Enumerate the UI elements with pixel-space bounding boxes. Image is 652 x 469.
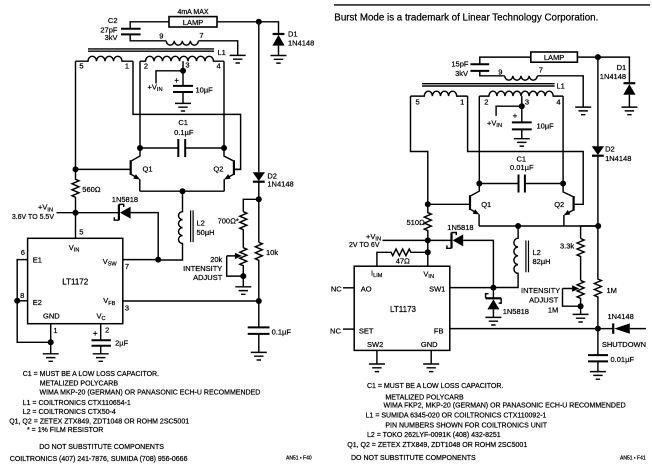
svg-text:LAMP: LAMP — [183, 18, 203, 27]
svg-text:0.1µF: 0.1µF — [174, 128, 194, 137]
svg-text:2µF: 2µF — [115, 339, 128, 348]
label 510ohm — [407, 218, 426, 227]
ground (20k pot) — [235, 287, 251, 295]
svg-text:Q2: Q2 — [554, 200, 564, 209]
label L2 (right) — [533, 248, 541, 257]
node lamp output — [256, 19, 262, 25]
capacitor 2uF — [92, 340, 111, 354]
node pot wiper — [240, 273, 246, 279]
svg-text:10µF: 10µF — [537, 122, 555, 131]
wire C2 to transformer pin 9 — [130, 34, 166, 40]
label 3kV — [455, 69, 468, 78]
svg-text:NC: NC — [330, 326, 341, 335]
svg-text:GND: GND — [421, 340, 438, 349]
wire SW1 to node — [450, 287, 494, 289]
label 0.01uF (right) — [611, 355, 635, 364]
label C1 (right) — [517, 154, 527, 163]
svg-text:L2: L2 — [197, 218, 205, 227]
svg-text:1N4148: 1N4148 — [605, 154, 631, 163]
wire emitter bus (right) — [479, 225, 598, 227]
label Q2 — [213, 165, 223, 174]
wire C to transformer pin 9 — [480, 71, 505, 76]
resistor 10k — [255, 242, 262, 301]
label INTENSITY — [183, 264, 222, 273]
wire emitter bus — [140, 190, 224, 192]
label 15pF — [451, 60, 469, 69]
svg-text:SW1: SW1 — [429, 284, 445, 293]
label pin 2 (right) — [484, 98, 488, 107]
svg-text:3kV: 3kV — [105, 33, 118, 42]
capacitor 15pF — [470, 64, 489, 71]
node feedback — [256, 298, 262, 304]
wire pin2 down to Q1 collector — [139, 61, 141, 148]
svg-text:700Ω*: 700Ω* — [218, 216, 239, 225]
svg-text:3: 3 — [185, 61, 189, 70]
label SHUTDOWN — [602, 340, 646, 349]
label pin 5 — [79, 61, 83, 70]
svg-text:5: 5 — [416, 98, 420, 107]
svg-text:PIN NUMBERS SHOWN FOR COILTRON: PIN NUMBERS SHOWN FOR COILTRONICS UNIT — [385, 422, 547, 429]
svg-text:METALIZED POLYCARB: METALIZED POLYCARB — [40, 380, 119, 387]
svg-text:82µH: 82µH — [533, 257, 551, 266]
capacitor C2 — [121, 29, 141, 35]
svg-text:Q1: Q1 — [481, 200, 491, 209]
resistor 47 ohm — [377, 240, 428, 266]
label 0.1uF — [174, 128, 194, 137]
pin number 1 — [53, 326, 57, 335]
wire VIN pin (right) — [427, 252, 429, 266]
wire lamp right to rail (right) — [577, 57, 629, 83]
label L1 (right) — [557, 82, 565, 91]
wire E2 pin 8 — [17, 300, 27, 302]
svg-text:1N4148: 1N4148 — [600, 72, 626, 81]
svg-text:D1: D1 — [288, 30, 298, 39]
transformer L1b winding 9-7 — [505, 76, 538, 80]
wire pin1 down and across to Q2 base — [133, 61, 241, 169]
svg-text:NC: NC — [331, 284, 342, 293]
svg-text:FB: FB — [434, 326, 444, 335]
wire VC pin 2 — [100, 324, 102, 341]
label plus — [174, 76, 179, 85]
node SW1 — [490, 285, 496, 291]
label 1N4148 (D2) — [267, 180, 293, 189]
transformer L1 winding 2-3-4 — [140, 56, 224, 61]
label D2 (right) — [605, 145, 615, 154]
svg-text:10µF: 10µF — [196, 85, 214, 94]
wire pin7 to ground — [198, 41, 237, 56]
resistor 3.3k — [577, 239, 584, 281]
svg-text:1M: 1M — [548, 305, 558, 314]
svg-text:E1: E1 — [33, 255, 42, 264]
label +VIN — [148, 83, 163, 94]
label NC (SET) — [330, 326, 341, 335]
diode 1N5818 (second, vertical) — [486, 288, 502, 318]
wire FB — [450, 328, 598, 330]
svg-text:10k: 10k — [266, 248, 278, 257]
node VSW — [155, 257, 161, 263]
svg-text:C1 = MUST BE A LOW LOSS CAPACI: C1 = MUST BE A LOW LOSS CAPACITOR. — [23, 371, 159, 378]
label D1 — [288, 30, 298, 39]
svg-text:INTENSITY: INTENSITY — [183, 264, 222, 273]
ground (D1) — [271, 56, 287, 64]
svg-text:Q1, Q2 = ZETEX ZTX849, ZDT1048: Q1, Q2 = ZETEX ZTX849, ZDT1048 OR ROHM 2… — [9, 419, 189, 426]
node E2 — [14, 298, 20, 304]
wire NC to SET — [343, 328, 354, 330]
label 1N5818 (second) — [503, 307, 529, 316]
ground (SW2) — [369, 364, 385, 372]
svg-text:WIMA FKP2, MKP-20 (GERMAN) OR: WIMA FKP2, MKP-20 (GERMAN) OR PANASONIC … — [384, 403, 626, 410]
svg-text:5: 5 — [79, 228, 83, 237]
label 9 (right) — [498, 68, 502, 77]
transistor Q1 — [76, 148, 141, 191]
inductor L2b 82uH — [493, 226, 528, 288]
label 0.01uF (right) — [510, 163, 534, 172]
svg-text:L2 = COILTRONICS CTX50-4: L2 = COILTRONICS CTX50-4 — [23, 409, 116, 416]
svg-text:C2: C2 — [108, 16, 118, 25]
svg-text:L1: L1 — [218, 48, 226, 57]
svg-text:3.3k: 3.3k — [560, 242, 574, 251]
pin number 2 — [105, 326, 109, 335]
ground (U2 GND) — [423, 364, 439, 372]
lamp BL2 — [531, 52, 578, 62]
node Q1 collector (right) — [476, 181, 482, 187]
label pin 5 (right) — [416, 98, 420, 107]
svg-text:C1 = MUST BE A LOW LOSS CAPAC: C1 = MUST BE A LOW LOSS CAPACITOR. — [367, 383, 503, 390]
svg-text:7: 7 — [125, 262, 129, 271]
diode D1 1N4148 — [272, 34, 284, 56]
svg-text:1N4148: 1N4148 — [288, 38, 314, 47]
label 9 — [159, 32, 163, 41]
label NC (AO) — [331, 284, 342, 293]
label 1N4148 (D1) — [288, 38, 314, 47]
wire main right rail upper — [258, 22, 260, 172]
node Q2 collector — [221, 145, 227, 151]
wire +VIN rail — [57, 212, 119, 214]
svg-text:1N4148: 1N4148 — [608, 312, 634, 321]
svg-text:DO NOT SUBSTITUTE COMPONENTS: DO NOT SUBSTITUTE COMPONENTS — [351, 455, 476, 462]
transformer L1b winding 5-1 — [411, 91, 468, 96]
capacitor C1 — [140, 139, 224, 157]
op-amp U1 LT1172 box — [28, 238, 123, 323]
label trademark note — [334, 12, 598, 23]
svg-text:L2: L2 — [533, 248, 541, 257]
label Q1 (right) — [481, 200, 491, 209]
label 3.3k — [560, 242, 574, 251]
label 1M (pot) — [548, 305, 558, 314]
svg-text:Q1, Q2 = ZETEX ZTX849, ZDT104: Q1, Q2 = ZETEX ZTX849, ZDT1048 OR ROHM 2… — [347, 442, 527, 449]
transistor Q2 — [224, 148, 241, 191]
svg-text:50µH: 50µH — [197, 228, 215, 237]
wire VFB to feedback node — [123, 300, 259, 302]
svg-text:LAMP: LAMP — [544, 53, 564, 62]
pin number 5 — [79, 228, 83, 237]
ground (1N5818 second) — [485, 317, 501, 325]
wire E1 pin 6 — [17, 260, 51, 343]
wire branch to 700ohm — [243, 199, 258, 211]
svg-text:Q2: Q2 — [213, 165, 223, 174]
wire center tap pin3 — [182, 61, 184, 71]
svg-text:D2: D2 — [605, 145, 615, 154]
wire pin4 down (right) — [562, 96, 564, 183]
label +VIN (right top) — [487, 118, 502, 129]
svg-text:6: 6 — [21, 248, 25, 257]
svg-text:* = 1% FILM RESISTOR: * = 1% FILM RESISTOR — [27, 427, 103, 434]
label pin 1 (right) — [460, 98, 464, 107]
resistor 1M (right rail) — [594, 226, 601, 329]
svg-text:2: 2 — [484, 98, 488, 107]
ground (10uF right) — [514, 139, 530, 146]
svg-text:AN51 • F40: AN51 • F40 — [286, 456, 312, 462]
svg-text:1: 1 — [53, 326, 57, 335]
label 0.1uF — [272, 327, 292, 336]
svg-text:COILTRONICS (407) 241-7876, SU: COILTRONICS (407) 241-7876, SUMIDA (708)… — [10, 456, 188, 463]
label INTENSITY (right) — [521, 286, 560, 295]
diode D2b 1N4148 — [592, 146, 604, 226]
svg-text:LT1172: LT1172 — [62, 278, 88, 287]
svg-text:8: 8 — [20, 291, 24, 300]
svg-text:3: 3 — [525, 98, 529, 107]
label 1N4148 (D1 right) — [600, 72, 626, 81]
transformer L1b winding 2-3-4 — [479, 91, 563, 96]
transformer L1 core — [88, 49, 214, 51]
svg-text:3.6V TO 5.5V: 3.6V TO 5.5V — [12, 214, 54, 221]
capacitor 10uF — [173, 71, 193, 104]
node emitter bus / L2 tap — [180, 188, 186, 194]
label L2 — [197, 218, 205, 227]
svg-text:+: + — [174, 76, 179, 85]
svg-text:METALIZED POLYCARB: METALIZED POLYCARB — [385, 395, 464, 402]
node GND — [48, 339, 54, 345]
svg-text:510Ω: 510Ω — [407, 218, 426, 227]
wire pin4 down to Q2 collector — [223, 61, 225, 148]
wire pin7 to ground (right) — [537, 76, 583, 107]
label 82uH — [533, 257, 551, 266]
svg-text:4: 4 — [556, 98, 560, 107]
wire pin5 down to Q1 base node — [75, 61, 77, 169]
label ADJUST — [193, 273, 223, 282]
node L2 tap (right) — [515, 223, 521, 229]
transistor Q1 (right) — [428, 184, 480, 227]
node emitter bus to rail (right) — [595, 223, 601, 229]
inductor L2 — [158, 191, 193, 260]
label 10k — [266, 248, 278, 257]
svg-text:LT1173: LT1173 — [390, 305, 416, 314]
label 700ohm* — [218, 216, 239, 225]
svg-text:D1: D1 — [617, 63, 627, 72]
capacitor 0.01uF (right) — [588, 329, 608, 372]
svg-text:INTENSITY: INTENSITY — [521, 286, 560, 295]
label 10uF — [196, 85, 214, 94]
svg-text:SHUTDOWN: SHUTDOWN — [602, 340, 646, 349]
svg-text:SET: SET — [359, 326, 374, 335]
svg-text:GND: GND — [43, 311, 60, 320]
ground (10uF) — [175, 103, 191, 111]
svg-text:+: + — [93, 329, 98, 338]
svg-text:AO: AO — [361, 284, 372, 293]
transistor Q2 (right) — [563, 184, 574, 227]
svg-text:1N5818: 1N5818 — [112, 195, 138, 204]
svg-text:L1: L1 — [557, 82, 565, 91]
wire center tap (right) — [521, 96, 523, 106]
wire lamp right to rail — [217, 22, 279, 34]
label 10uF (right) — [537, 122, 555, 131]
svg-text:7: 7 — [539, 66, 543, 75]
svg-text:1: 1 — [460, 98, 464, 107]
node Q1 collector — [137, 145, 143, 151]
wire lamp left to C2 — [130, 22, 169, 29]
label ADJUST (right) — [529, 296, 559, 305]
svg-text:L1 = COILTRONICS CTX110654-1: L1 = COILTRONICS CTX110654-1 — [23, 400, 131, 407]
svg-text:2V TO 6V: 2V TO 6V — [349, 242, 380, 249]
svg-text:0.01µF: 0.01µF — [611, 355, 635, 364]
svg-text:3: 3 — [125, 303, 129, 312]
label pin 4 — [217, 61, 221, 70]
svg-text:+: + — [513, 112, 518, 121]
node FB — [595, 326, 601, 332]
ground (pin 7 right) — [575, 107, 591, 115]
svg-text:4: 4 — [217, 61, 221, 70]
label 7 (right) — [539, 66, 543, 75]
label plus (2uF) — [93, 329, 98, 338]
node pot wiper (right) — [578, 303, 584, 309]
svg-text:WIMA MKP-20 (GERMAN) OR PANASO: WIMA MKP-20 (GERMAN) OR PANASONIC ECH-U … — [40, 390, 261, 397]
resistor 510 ohm — [424, 204, 431, 240]
resistor 560 ohm — [72, 169, 79, 212]
node Q1 base (right) — [425, 201, 431, 207]
label +VIN supply — [38, 203, 53, 214]
svg-text:20k: 20k — [210, 255, 222, 264]
label pin 3 — [185, 61, 189, 70]
svg-text:15pF: 15pF — [451, 60, 469, 69]
transformer L1 winding 5-1 — [76, 56, 134, 61]
pin number 6 — [21, 248, 25, 257]
wire VIN pin 5 — [75, 213, 77, 239]
label C1 — [178, 118, 188, 127]
svg-text:1N5818: 1N5818 — [503, 307, 529, 316]
svg-text:1M: 1M — [607, 286, 617, 295]
wire pin2 down (right) — [478, 96, 480, 183]
label plus (10uF right) — [513, 112, 518, 121]
svg-text:3kV: 3kV — [455, 69, 468, 78]
ground (pot right) — [573, 314, 589, 322]
wire +VIN rail (right) — [383, 239, 452, 241]
svg-text:1: 1 — [125, 61, 129, 70]
svg-text:9: 9 — [498, 68, 502, 77]
label 20k — [210, 255, 222, 264]
label 3.6V TO 5.5V — [12, 214, 54, 221]
diode D2 1N4148 — [253, 172, 265, 243]
pin number 3 — [125, 303, 129, 312]
potentiometer 1M — [563, 280, 585, 314]
label 1M (rail) — [607, 286, 617, 295]
label pin 2 — [144, 61, 148, 70]
label L1 — [218, 48, 226, 57]
svg-text:C1: C1 — [178, 118, 188, 127]
right notes text — [347, 383, 646, 462]
wire NC to AO — [343, 287, 354, 289]
svg-text:Q1: Q1 — [142, 165, 152, 174]
wire VSW pin to node — [123, 259, 158, 261]
label pin 1 — [125, 61, 129, 70]
capacitor 10uF (right) — [512, 106, 532, 139]
capacitor C1b — [479, 175, 563, 193]
ground (0.01uF right) — [590, 372, 606, 380]
ground (GND pin) — [43, 354, 59, 362]
label 1N5818 (first right) — [447, 223, 473, 232]
label Q1 — [142, 165, 152, 174]
wire GND pin 1 — [50, 324, 52, 354]
wire main right rail (right circuit) — [597, 57, 599, 146]
node rail 2 (right) — [425, 249, 431, 255]
svg-text:1N4148: 1N4148 — [267, 180, 293, 189]
diode D1b 1N4148 — [623, 83, 635, 107]
label +VIN supply (right) — [366, 232, 381, 243]
svg-text:ADJUST: ADJUST — [193, 273, 223, 282]
label Q2 (right) — [554, 200, 564, 209]
svg-text:5: 5 — [79, 61, 83, 70]
node center tap — [180, 68, 186, 74]
label 1N4148 (shutdown) — [608, 312, 634, 321]
diode 1N4148 shutdown — [598, 323, 646, 333]
wire pin1 to Q2 base (right) — [468, 96, 584, 204]
pin number 8 — [20, 291, 24, 300]
label pin 4 (right) — [556, 98, 560, 107]
left notes text — [9, 371, 312, 463]
potentiometer 20k — [227, 248, 247, 287]
wire +VIN feed — [156, 71, 183, 84]
svg-text:Burst Mode is a trademark of L: Burst Mode is a trademark of Linear Tech… — [334, 12, 598, 23]
ground (pin 7) — [230, 55, 246, 63]
label 4mA MAX — [177, 9, 208, 16]
label 1N5818 — [112, 195, 138, 204]
label pin 3 (right) — [525, 98, 529, 107]
svg-text:C1: C1 — [517, 154, 527, 163]
svg-text:4mA MAX: 4mA MAX — [177, 9, 208, 16]
wire pin5 to Q1 base (right) — [411, 96, 428, 204]
diode 1N5818 (first, right) — [447, 233, 494, 288]
svg-text:L1 = SUMIDA 6345-020 OR COILT: L1 = SUMIDA 6345-020 OR COILTRONICS CTX1… — [366, 412, 547, 419]
svg-text:SW2: SW2 — [367, 340, 383, 349]
op-amp U2 LT1173 box — [354, 266, 450, 350]
capacitor 0.1uF — [248, 301, 270, 352]
svg-text:DO NOT SUBSTITUTE COMPONENTS: DO NOT SUBSTITUTE COMPONENTS — [39, 444, 164, 451]
label 560ohm — [82, 185, 101, 194]
diode 1N5818 (VSW clamp) — [114, 204, 158, 259]
svg-text:2: 2 — [105, 326, 109, 335]
label C2 27pF 3kV — [100, 16, 118, 42]
svg-text:7: 7 — [199, 31, 203, 40]
node +VIN rail — [73, 210, 79, 216]
label 47ohm — [396, 256, 410, 265]
pin number 7 — [125, 262, 129, 271]
svg-text:560Ω: 560Ω — [82, 185, 101, 194]
svg-text:AN51 • F41: AN51 • F41 — [620, 456, 646, 462]
svg-text:L2 = TOKO 262LYF-0091K (408): L2 = TOKO 262LYF-0091K (408) 432-8251 — [367, 432, 501, 439]
wire +VIN feed (right) — [496, 106, 522, 116]
label 2uF — [115, 339, 128, 348]
svg-text:ADJUST: ADJUST — [529, 296, 559, 305]
wire SW2 pin — [376, 350, 378, 364]
label 1N4148 (D2 right) — [605, 154, 631, 163]
label 2V TO 6V — [349, 242, 380, 249]
wire branch to 3.3k — [581, 226, 599, 239]
ground (2uF) — [93, 354, 109, 362]
svg-text:0.01µF: 0.01µF — [510, 163, 534, 172]
svg-text:1N5818: 1N5818 — [447, 223, 473, 232]
node center tap (right) — [519, 103, 525, 109]
ground (D1 right) — [621, 107, 637, 115]
wire GND pin (right) — [430, 350, 432, 364]
